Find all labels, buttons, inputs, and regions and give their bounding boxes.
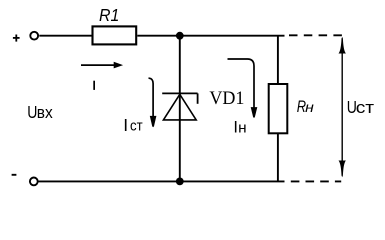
- wire bottom: [38, 180, 285, 182]
- measurement arrow Ust: [339, 37, 346, 177]
- label Uvx (input voltage): [27, 102, 52, 122]
- svg-text:вх: вх: [37, 103, 53, 122]
- zener diode VD1: [162, 36, 197, 182]
- arrow Ist: [149, 78, 154, 116]
- terminal plus sign: [13, 35, 20, 42]
- label Rn: [297, 99, 314, 117]
- dashed wire top: [289, 34, 343, 36]
- current arrow I: [81, 62, 123, 69]
- input terminal bottom: [30, 178, 38, 186]
- label Ust: [347, 97, 374, 117]
- svg-text:R1: R1: [99, 5, 119, 25]
- node bottom junction: [176, 178, 184, 186]
- svg-text:ст: ст: [356, 98, 374, 117]
- resistor Rn: [269, 84, 288, 133]
- wire top-middle: [137, 35, 284, 37]
- dashed wire bottom: [291, 180, 341, 182]
- wire load branch top: [277, 36, 279, 84]
- wire top-left: [39, 35, 91, 37]
- label I: [93, 81, 95, 90]
- label Ist: [123, 115, 143, 135]
- arrow In: [228, 59, 255, 109]
- svg-text:н: н: [238, 120, 246, 136]
- resistor R1: [93, 26, 137, 44]
- input terminal top: [30, 32, 38, 40]
- terminal minus sign: [12, 174, 17, 176]
- label In: [233, 119, 246, 137]
- svg-text:ст: ст: [130, 116, 143, 133]
- node top junction: [176, 32, 184, 40]
- svg-text:н: н: [305, 100, 314, 116]
- svg-text:VD1: VD1: [209, 88, 244, 110]
- svg-text:I: I: [123, 115, 128, 135]
- wire load branch bottom: [277, 133, 279, 181]
